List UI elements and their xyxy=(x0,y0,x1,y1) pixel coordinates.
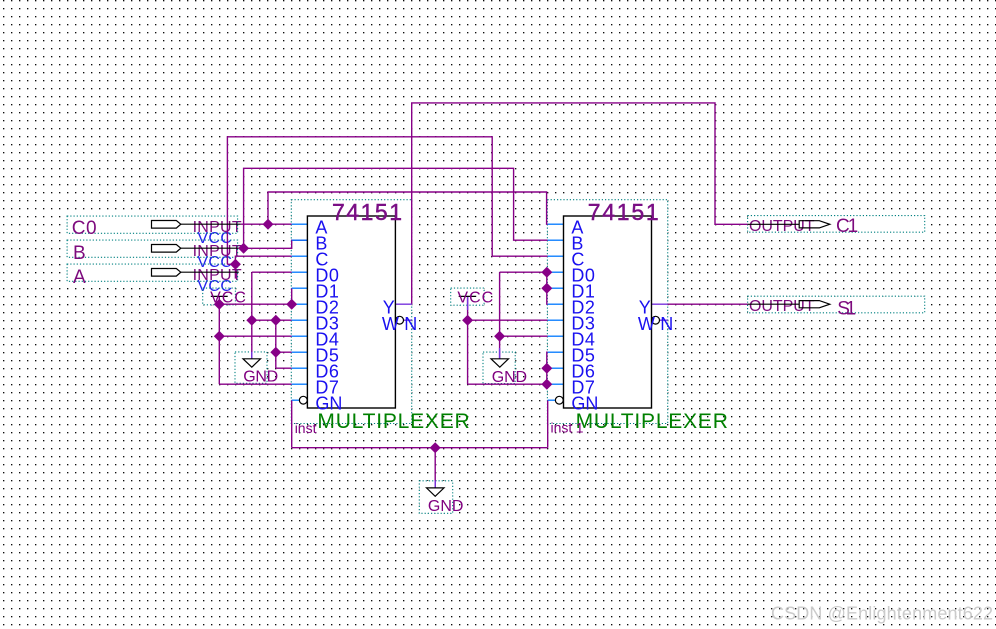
VCC bar left xyxy=(211,295,228,297)
white mask GND symbol bottom xyxy=(419,481,452,514)
VCC bar right xyxy=(459,295,477,297)
wire GND right riser xyxy=(499,272,501,358)
stub D6.1 xyxy=(292,367,308,369)
junction D3 D5 xyxy=(270,315,281,326)
stub D6.2 xyxy=(548,367,564,369)
stub A1 xyxy=(292,223,308,225)
svg-text:GND: GND xyxy=(243,368,278,385)
selection GND right xyxy=(483,352,515,383)
wire D0 right xyxy=(500,271,548,273)
white mask output pin S1 xyxy=(748,296,925,315)
white mask mux U2 selection area xyxy=(547,200,667,424)
stub B1 xyxy=(292,239,308,241)
wire D3 right xyxy=(468,319,548,321)
junction net B xyxy=(238,243,249,254)
stub D7.1 xyxy=(292,383,308,385)
stub D1.2 xyxy=(548,287,564,289)
selection output C1 xyxy=(748,216,925,233)
wire D7 left xyxy=(219,383,291,385)
stub D1.1 xyxy=(292,287,308,289)
stub GN2 xyxy=(548,399,556,401)
stub GND1 lead violet tip xyxy=(251,352,253,359)
svg-text:B: B xyxy=(73,243,86,264)
bubble WN2 xyxy=(652,316,660,324)
output pin S1 arrow xyxy=(799,301,830,308)
stub D2.2 xyxy=(548,303,564,305)
output pin C1 lead xyxy=(748,223,800,225)
svg-text:74151: 74151 xyxy=(332,199,402,225)
GND triangle right xyxy=(491,359,509,367)
input pin C0 lead xyxy=(181,223,241,225)
junction D7 right xyxy=(541,379,552,390)
wire input C0 horizontal xyxy=(241,223,292,225)
junction net C0 xyxy=(263,219,274,230)
wire VCC left to D2 xyxy=(219,303,291,305)
pin labels mux U1 xyxy=(315,218,417,414)
junction GND1 D3 xyxy=(246,315,257,326)
stub D2.1 xyxy=(292,303,308,305)
wire net A short stub below junction xyxy=(234,264,236,278)
selection input A xyxy=(67,264,238,281)
input pin A symbol arrow xyxy=(152,269,181,277)
stub D0.1 xyxy=(292,271,308,273)
white mask GND symbol left xyxy=(235,352,267,383)
output pin S1 lead xyxy=(748,303,800,305)
svg-text:VCC: VCC xyxy=(210,290,246,307)
wire net Y1 to OUTPUT C1 (top wire) xyxy=(412,103,748,304)
svg-text:1: 1 xyxy=(576,419,584,435)
pin stubs left mux xyxy=(292,224,308,400)
stub VCC2 lead violet tip xyxy=(467,297,469,310)
white mask output pin C1 xyxy=(748,216,925,235)
stub D5.1 xyxy=(292,351,308,353)
wire net C0 to mux A pins (fourth top wire) xyxy=(268,192,548,224)
svg-text:GND: GND xyxy=(492,369,527,386)
svg-text:VCC: VCC xyxy=(457,290,493,307)
wire GND left riser xyxy=(251,272,253,358)
stub Y2 violet xyxy=(652,303,668,305)
junction GND2 D4 xyxy=(494,331,505,342)
stub D5.2 xyxy=(548,351,564,353)
selection VCC right xyxy=(451,288,484,305)
mux U1 body xyxy=(307,216,395,408)
svg-text:inst: inst xyxy=(295,420,317,436)
pin stubs right mux xyxy=(548,224,564,400)
wire D5-D6-D7 vertical right xyxy=(546,352,549,384)
bubble GN1 xyxy=(299,396,307,404)
stub C1 xyxy=(292,255,308,257)
GND triangle bottom xyxy=(427,488,445,496)
wire D0 left xyxy=(252,271,292,273)
junction D6 right xyxy=(541,363,552,374)
wire D6 left xyxy=(276,367,292,369)
output pin C1 arrow xyxy=(799,221,830,228)
wire GN left down xyxy=(291,400,293,448)
input pin B symbol arrow xyxy=(152,245,181,253)
selection boxes input pins xyxy=(67,216,238,281)
bubble GN2 xyxy=(555,396,563,404)
svg-text:MULTIPLEXER: MULTIPLEXER xyxy=(317,410,469,433)
stub D7.2 xyxy=(548,383,564,385)
wire D4 left xyxy=(219,335,291,337)
wire D0-D1-D2 vertical right xyxy=(546,272,549,304)
pin labels mux U2 xyxy=(571,218,673,414)
input pin C0 symbol arrow xyxy=(152,221,181,229)
wire net A jog to junction xyxy=(227,263,235,265)
selection input B xyxy=(67,240,238,257)
junction D1 D2 xyxy=(286,299,297,310)
stub B2 xyxy=(548,239,564,241)
stub WN2 violet xyxy=(660,319,668,321)
junction D0 right xyxy=(541,267,552,278)
stub GND3 lead violet tip xyxy=(434,481,436,488)
stub WN1 violet xyxy=(404,319,412,321)
junction VCC1 D4 xyxy=(214,331,225,342)
junction D1 right xyxy=(541,283,552,294)
wire VCC right lead xyxy=(467,296,469,320)
stub D3.2 xyxy=(548,319,564,321)
svg-text:74151: 74151 xyxy=(588,199,659,225)
wire D7 right xyxy=(468,383,548,385)
selection GND left xyxy=(235,352,267,383)
junction VCC1 D2 xyxy=(214,299,225,310)
stub D0.2 xyxy=(548,271,564,273)
svg-text:MULTIPLEXER: MULTIPLEXER xyxy=(576,410,728,433)
stub D3.1 xyxy=(292,319,308,321)
junction D5 D6 xyxy=(270,347,281,358)
white mask input pin B xyxy=(67,240,241,258)
svg-text:GND: GND xyxy=(428,498,464,515)
selection mux U1 xyxy=(291,200,411,424)
selection input C0 xyxy=(67,216,238,233)
wire D5 left xyxy=(276,351,292,353)
wire Y2 to OUTPUT S1 xyxy=(668,303,748,305)
stub Y1 violet xyxy=(395,303,411,305)
wire D4 right xyxy=(500,335,548,337)
GND triangle left xyxy=(243,359,261,367)
white mask mux U1 selection area xyxy=(291,200,411,424)
mux U2 body xyxy=(564,216,652,408)
wire VCC right vertical to D7 xyxy=(467,320,469,384)
stub D4.1 xyxy=(292,335,308,337)
input pin B lead xyxy=(181,247,241,249)
white mask VCC symbol right xyxy=(451,288,484,305)
wire D3-D5-D6 vertical left xyxy=(275,320,277,368)
wire bottom GND lead xyxy=(434,448,436,488)
wire VCC left vertical to D4 D7 xyxy=(218,304,220,384)
selection mux U2 xyxy=(547,200,667,424)
white mask input pin A xyxy=(67,264,241,282)
svg-text:C0: C0 xyxy=(72,218,97,239)
white mask GND symbol right xyxy=(483,352,515,383)
dashed selection boxes xyxy=(203,200,925,514)
white mask input pin C0 xyxy=(67,216,241,234)
wire GN right down xyxy=(547,400,549,448)
bubble WN1 xyxy=(396,316,404,324)
svg-text:C1: C1 xyxy=(836,216,858,237)
junction diamonds xyxy=(214,219,553,454)
wire D1 riser left xyxy=(291,288,293,304)
wire VCC left lead xyxy=(218,296,220,304)
selection VCC left xyxy=(203,288,236,305)
junction GND bottom xyxy=(430,442,441,453)
svg-text:A: A xyxy=(73,267,86,288)
stub A2 xyxy=(548,223,564,225)
wire net A to mux C pins (second top wire) xyxy=(227,137,547,264)
wire input B horizontal and riser xyxy=(241,240,308,248)
wire net B to mux B pins (third top wire) xyxy=(244,168,548,248)
svg-text:S1: S1 xyxy=(837,298,856,319)
wire GN bottom horizontal xyxy=(292,447,548,449)
stub C2 xyxy=(548,255,564,257)
stub GN1 xyxy=(292,399,300,401)
svg-text:inst: inst xyxy=(551,419,573,435)
junction net A xyxy=(230,259,241,270)
svg-text:CSDN @Enlightenment622: CSDN @Enlightenment622 xyxy=(771,604,993,624)
selection GND bottom xyxy=(419,481,452,514)
input pin A lead xyxy=(181,271,239,273)
junction VCC2 D3 xyxy=(462,315,473,326)
wire net A riser to left mux C pin xyxy=(235,256,291,264)
selection output S1 xyxy=(748,296,925,313)
white mask VCC symbol left xyxy=(203,288,236,305)
stub GND2 lead violet tip xyxy=(499,348,501,358)
wire D3 left xyxy=(252,319,292,321)
stub D4.2 xyxy=(548,335,564,337)
